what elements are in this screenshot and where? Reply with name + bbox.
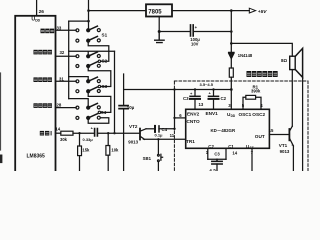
svg-text:33: 33 <box>57 26 62 31</box>
svg-text:15: 15 <box>269 128 274 133</box>
hook wire S3 to S4 <box>88 91 111 112</box>
svg-text:KD－482GR: KD－482GR <box>211 128 236 133</box>
svg-text:+: + <box>190 91 193 96</box>
svg-text:ENV2: ENV2 <box>187 112 200 117</box>
svg-text:0.1μ: 0.1μ <box>155 133 164 138</box>
svg-text:SB1: SB1 <box>143 156 152 161</box>
label chime title blobs <box>247 71 278 77</box>
wire +5V down to chain <box>230 11 232 32</box>
svg-text:+: + <box>91 125 94 130</box>
resistor 10k <box>107 133 109 145</box>
svg-text:4: 4 <box>260 103 263 108</box>
svg-text:7805: 7805 <box>148 9 162 15</box>
wire 10uF to bottom <box>123 109 125 171</box>
label seconds display blobs <box>41 29 55 34</box>
svg-text:C1: C1 <box>228 144 234 149</box>
wire TR1 pin 11 <box>144 138 186 140</box>
svg-text:DD: DD <box>35 19 40 23</box>
label ten-minute blobs <box>40 131 52 136</box>
junction dot bus C3 <box>194 88 196 90</box>
junction dot bus C2 <box>212 88 214 90</box>
wire VT1 emitter down <box>292 146 294 171</box>
svg-text:13: 13 <box>199 102 204 107</box>
switch S3 upper contacts <box>76 80 79 83</box>
dashed box hourly chime circuit <box>174 81 308 171</box>
pin 32 wire <box>56 55 77 57</box>
main clock IC U2 LM8365 box <box>15 16 55 174</box>
capacitor 0.33uF <box>95 129 98 136</box>
svg-text:C2: C2 <box>208 144 214 149</box>
feed wire S2 <box>69 51 115 56</box>
wire U3 pin1 C2 <box>207 148 209 159</box>
wire speaker supply <box>231 43 292 56</box>
junction dot ground node <box>158 30 161 33</box>
transistor VT1 9013 <box>288 129 290 140</box>
svg-text:5: 5 <box>242 103 245 108</box>
svg-text:0.33μ: 0.33μ <box>83 137 94 142</box>
capacitor C4 0.1uF <box>154 126 156 132</box>
svg-text:30k: 30k <box>60 137 68 142</box>
chime IC U3 KD-482GR box <box>186 109 270 148</box>
svg-text:+: + <box>195 25 198 30</box>
wire VT2 collector to C4 <box>146 128 155 130</box>
hook wire S2 to S3 <box>88 66 111 87</box>
wire VT1 collector to speaker <box>291 70 293 127</box>
svg-text:7: 7 <box>251 150 254 155</box>
ground symbol <box>155 32 164 43</box>
svg-text:6: 6 <box>179 113 182 118</box>
svg-text:14: 14 <box>232 150 237 155</box>
capacitor C5 <box>212 159 222 164</box>
wire U3 pin14 C1 <box>225 148 227 159</box>
+5V arrow terminal <box>249 8 255 13</box>
diode D1 1N4148 <box>229 43 234 68</box>
wire C5 to bottom <box>216 164 218 171</box>
svg-text:9013: 9013 <box>128 140 138 145</box>
capacitor 100uF 10V <box>191 25 194 36</box>
wire ground to 100uF capacitor <box>159 31 190 33</box>
hook wire S1 to S2 <box>88 41 109 62</box>
svg-text:+5V: +5V <box>258 9 267 15</box>
svg-text:10V: 10V <box>191 41 199 46</box>
speaker 8ohm <box>290 56 296 69</box>
junction dot bus left vertical <box>173 88 175 90</box>
hook wire S4 return <box>88 118 109 124</box>
svg-text:26: 26 <box>39 9 45 15</box>
capacitor 10uF <box>119 106 128 109</box>
switch S2 lower contacts <box>76 65 79 68</box>
switch S4 upper contacts <box>76 106 79 109</box>
svg-text:LM8365: LM8365 <box>27 154 46 160</box>
wire 7805 output +5V rail <box>172 10 249 12</box>
capacitor C2 stub <box>213 90 215 97</box>
wire joining pin1 pin14 <box>208 158 226 160</box>
wire 10uF branch vertical <box>123 74 125 105</box>
node: supply wire from top at x=88.5 <box>88 0 90 30</box>
svg-text:DD: DD <box>231 114 236 118</box>
pushbutton SB1 <box>157 139 159 154</box>
wire chain to U3 supply pin 3 <box>230 77 232 109</box>
resistor 15k <box>79 133 81 146</box>
junction dot 15k <box>78 132 80 134</box>
switch S2 upper contacts <box>76 55 79 58</box>
switch S1 lower contacts <box>76 39 79 42</box>
wire CNTO pin 6 <box>175 117 186 119</box>
capacitor C3 stub <box>194 90 196 97</box>
long vertical wire right of switches <box>114 51 116 133</box>
svg-text:OUT: OUT <box>255 134 265 139</box>
svg-text:32: 32 <box>60 50 65 55</box>
wire C3 to ENV2 pin <box>194 99 196 109</box>
wire U3 pin7 Uss to bottom <box>251 148 253 171</box>
svg-text:14: 14 <box>55 126 60 131</box>
junction dot chime supply bus <box>230 88 233 91</box>
label alarm2 display blobs <box>34 103 52 108</box>
junction dot SB1 <box>157 138 159 140</box>
switch S1 upper contacts <box>76 29 79 32</box>
svg-text:31: 31 <box>59 76 64 81</box>
svg-text:11: 11 <box>170 133 175 138</box>
pin 31 wire <box>56 80 77 82</box>
junction dot left bus <box>87 20 90 23</box>
svg-text:C3: C3 <box>183 96 189 101</box>
wire C2 to ENV1 pin <box>213 99 215 109</box>
svg-text:OSC1: OSC1 <box>239 112 252 117</box>
svg-text:S4: S4 <box>101 110 107 115</box>
wire cap to VT2 base <box>97 132 140 134</box>
svg-text:15k: 15k <box>82 148 90 153</box>
svg-text:3.5~4.5: 3.5~4.5 <box>200 82 214 87</box>
page edge artifact left <box>0 73 2 150</box>
svg-text:C2: C2 <box>221 96 227 101</box>
label alarm1 display blobs <box>34 77 52 82</box>
svg-text:390k: 390k <box>251 89 261 94</box>
junction dot long vertical <box>113 132 115 134</box>
pin 28 wire <box>56 107 77 109</box>
wire left switch bus vertical <box>68 21 70 99</box>
wire 7805 input <box>89 10 147 12</box>
wire OUT pin 15 <box>269 134 289 136</box>
svg-text:1N4148: 1N4148 <box>238 53 253 58</box>
svg-text:C3: C3 <box>214 151 220 156</box>
pin 33 wire <box>56 29 77 31</box>
junction dot supply/7805 input <box>87 9 90 12</box>
chime supply bus wire <box>124 89 232 91</box>
wire left vertical of chime input <box>174 90 176 130</box>
svg-text:S1: S1 <box>102 32 108 37</box>
junction dot 10k <box>107 132 109 134</box>
svg-text:28: 28 <box>57 102 62 107</box>
svg-text:S3: S3 <box>102 84 108 89</box>
feed wire S4 <box>69 99 89 108</box>
switch S3 lower contacts <box>76 90 79 93</box>
voltage regulator IC 7805 box <box>146 4 172 16</box>
svg-text:CNTO: CNTO <box>187 119 201 124</box>
svg-text:TR1: TR1 <box>186 139 195 144</box>
ground stem of 7805 <box>158 17 160 32</box>
capacitor C3 <box>190 95 200 97</box>
svg-text:10μ: 10μ <box>127 105 135 110</box>
label sleep display blobs <box>34 50 52 55</box>
junction dot +5V rail to chain <box>230 9 233 12</box>
wire speaker horn to bottom <box>302 77 304 171</box>
feed wire S3 <box>69 77 89 82</box>
switch S4 lower contacts <box>76 116 79 119</box>
svg-text:VT2: VT2 <box>129 124 138 129</box>
junction dot speaker feed <box>230 42 233 45</box>
pin 14 wire with resistor 30k <box>56 132 61 134</box>
resistor in chain (vertical) <box>229 68 233 77</box>
resistor R1 390k between OSC1 OSC2 <box>243 97 246 109</box>
capacitor C2 <box>209 95 219 97</box>
svg-text:9013: 9013 <box>280 149 290 154</box>
transistor VT2 9013 <box>139 129 141 140</box>
svg-text:C4: C4 <box>162 127 168 132</box>
junction dot CNTO <box>173 117 175 119</box>
svg-text:OSC2: OSC2 <box>252 112 265 117</box>
wire C4 to TR1 node <box>159 128 175 130</box>
svg-text:VT1: VT1 <box>279 143 288 148</box>
wire to left switch bus <box>69 20 89 22</box>
junction dot C4 <box>173 128 175 130</box>
U2 pin 26 wire to top edge <box>36 0 38 16</box>
svg-text:S2: S2 <box>102 58 108 63</box>
svg-text:10k: 10k <box>111 147 119 152</box>
svg-text:+: + <box>209 91 212 96</box>
svg-text:ENV1: ENV1 <box>206 111 219 116</box>
wire 100uF to diode chain <box>193 32 231 44</box>
svg-text:8Ω: 8Ω <box>281 58 288 63</box>
junction dot chain/cap node <box>230 30 233 33</box>
